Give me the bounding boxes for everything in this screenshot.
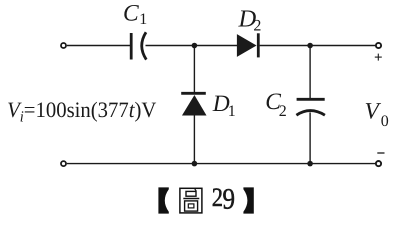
svg-text:9: 9 [223, 184, 236, 216]
svg-text:2: 2 [212, 182, 223, 212]
svg-text:0: 0 [381, 113, 389, 130]
node D junction dot [307, 161, 313, 167]
output terminal bottom-right [376, 161, 381, 166]
wire C2 to bottom node D [309, 112, 311, 163]
caption text 29 [212, 182, 235, 216]
capacitor C1 [131, 32, 146, 59]
node A junction dot [192, 43, 198, 49]
svg-text:2: 2 [279, 103, 287, 120]
label C2 [265, 89, 287, 120]
label V0 output voltage [365, 99, 389, 130]
svg-text:1: 1 [139, 11, 147, 28]
plus sign [375, 54, 382, 61]
wire C1 to node A [146, 45, 195, 47]
capacitor C2 [296, 99, 325, 115]
svg-text:2: 2 [253, 17, 261, 34]
label D1 [212, 91, 236, 120]
svg-text:C: C [123, 0, 139, 26]
input terminal top-left [61, 43, 66, 48]
diode D2 [237, 33, 258, 57]
label C1 [123, 0, 147, 28]
svg-text:V: V [365, 99, 382, 125]
wire node B down to C2 [309, 46, 311, 99]
caption glyph 圖 (figure) [180, 188, 202, 213]
caption left lenticular bracket [158, 187, 168, 213]
label Vi=100sin(377t)V [7, 97, 156, 126]
output terminal top-right [376, 43, 381, 48]
minus sign [377, 152, 384, 154]
wire D1 to bottom node C [193, 115, 195, 164]
input terminal bottom-left [61, 161, 66, 166]
label D2 [238, 5, 262, 34]
diode D1 [181, 93, 206, 115]
bottom wire [67, 163, 375, 165]
wire node A to D2 [194, 45, 237, 47]
wire node B to output top-right [310, 45, 375, 47]
svg-text:1: 1 [228, 103, 236, 120]
wire top-left to C1 [67, 45, 130, 47]
caption right lenticular bracket [243, 187, 253, 213]
wire D2 to node B [260, 45, 311, 47]
node C junction dot [192, 161, 198, 167]
wire node A down to D1 [193, 46, 195, 93]
svg-text:Vi=100sin(377t)V: Vi=100sin(377t)V [7, 97, 156, 126]
node B junction dot [307, 43, 313, 49]
